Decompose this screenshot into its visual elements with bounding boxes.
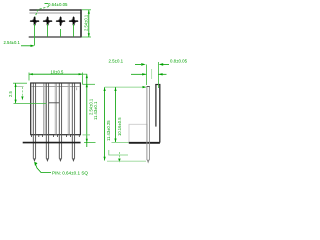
front view pin tips: [33, 158, 75, 162]
side view down arrow to pin tip level: [118, 152, 120, 159]
front view right extension line (body top): [83, 83, 95, 85]
front view body inner top line: [31, 85, 80, 87]
top view body top edge: [29, 9, 81, 11]
green pin centreline stems (top view): [35, 24, 74, 46]
top view body inner chamfer line: [29, 12, 81, 14]
side view pin-top extension line with arrow: [105, 86, 143, 88]
front view cavity separator lines: [44, 84, 70, 135]
bottom leader arrowhead at pin 1 tip: [34, 162, 37, 166]
top view right dimension extension line (top): [82, 9, 91, 11]
top view right dimension extension line (bottom): [82, 36, 91, 38]
front view inner corner step (top right): [76, 87, 78, 90]
counter-sink leader dashed line: [35, 7, 49, 18]
svg-text:2.5: 2.5: [8, 91, 13, 97]
bottom leader polyline: [35, 163, 51, 173]
front view left dimension line: [15, 83, 17, 103]
pin 1 cross (top view): [30, 16, 40, 26]
svg-text:11.43±0.1: 11.43±0.1: [93, 101, 98, 120]
side view body top cap: [155, 84, 160, 86]
front view left dimension extension line (bottom): [14, 102, 47, 104]
side view body inner line: [155, 85, 157, 127]
side view horizontal dim line with inward arrows: [131, 73, 146, 75]
front view pin 2 (double line): [46, 84, 48, 159]
pin 2 cross (top view): [43, 16, 53, 26]
svg-text:10.16±0.5: 10.16±0.5: [117, 117, 122, 136]
side view 0.8 dim leader arrow (right, pointing left): [163, 63, 169, 65]
svg-text:2.54±0.1: 2.54±0.1: [84, 14, 89, 31]
side view dim extension line right (body back): [157, 62, 159, 88]
front view pin 4 (double line): [72, 84, 74, 159]
svg-text:0.8±0.05: 0.8±0.05: [170, 59, 188, 64]
front view right dimension line: [86, 74, 88, 147]
side view pin top cap: [147, 86, 150, 88]
counter-sink leader tick: [45, 3, 49, 5]
front view left dimension arrowheads: [15, 83, 17, 87]
svg-text:PIN: 0.64±0.1 SQ: PIN: 0.64±0.1 SQ: [52, 171, 88, 176]
side view pin tip: [147, 160, 150, 164]
front view internal bridge line between pins 2-3: [49, 102, 60, 104]
side view seating line (thick): [129, 142, 160, 144]
side view pin tip extension line: [107, 160, 146, 162]
front view pin 3 (double line): [59, 84, 61, 159]
side view dim extension line left (pin front): [145, 65, 147, 86]
top view body bottom edge: [29, 36, 82, 38]
front view right dimension arrowheads: [86, 83, 88, 87]
front view standoff feet ticks: [32, 135, 80, 137]
left leader arrowhead: [31, 45, 35, 47]
side view seating extension line (left): [112, 141, 129, 143]
gray inner line stub (left of body): [17, 86, 24, 88]
side view lower jog line: [109, 150, 128, 155]
top view right dimension arrowheads: [88, 10, 90, 14]
side view pin (double line): [147, 87, 150, 160]
top view right dimension line: [88, 10, 90, 37]
side view top dim leader arrow (left, pointing right): [135, 63, 141, 65]
seating plane line (thick): [23, 142, 81, 144]
side view base block (light): [129, 124, 147, 142]
front view top dimension extension verticals: [28, 73, 30, 81]
svg-text:2.5±0.1: 2.5±0.1: [109, 59, 124, 64]
side view body right edge: [159, 85, 161, 143]
front view right extension line (seating): [84, 142, 96, 144]
front view body outline: [31, 83, 81, 135]
svg-text:0.64±0.05: 0.64±0.05: [48, 2, 68, 7]
top dim line extension to right dim: [82, 73, 87, 75]
pin 3 cross (top view): [56, 16, 66, 26]
front view left dimension extension line (top): [13, 82, 27, 84]
svg-text:11.43±0.25: 11.43±0.25: [106, 120, 111, 141]
left leader line with arrow: [21, 45, 34, 47]
top view body right edge: [80, 9, 82, 37]
svg-text:2.54±0.1: 2.54±0.1: [4, 40, 21, 45]
side view left dimension line B: [115, 87, 117, 142]
side view left dimension line A: [104, 87, 106, 160]
front view pin 1 (double line): [33, 84, 35, 159]
front view left dashed centreline with arrow: [21, 87, 23, 96]
faint centre tick between dim extension lines: [151, 69, 153, 79]
front view top dimension line: [29, 73, 82, 75]
svg-text:10±0.5: 10±0.5: [51, 69, 64, 74]
body bottom extension (right): [83, 134, 91, 136]
pin 4 cross (top view): [69, 16, 79, 26]
front view top dimension arrowheads: [29, 73, 33, 75]
